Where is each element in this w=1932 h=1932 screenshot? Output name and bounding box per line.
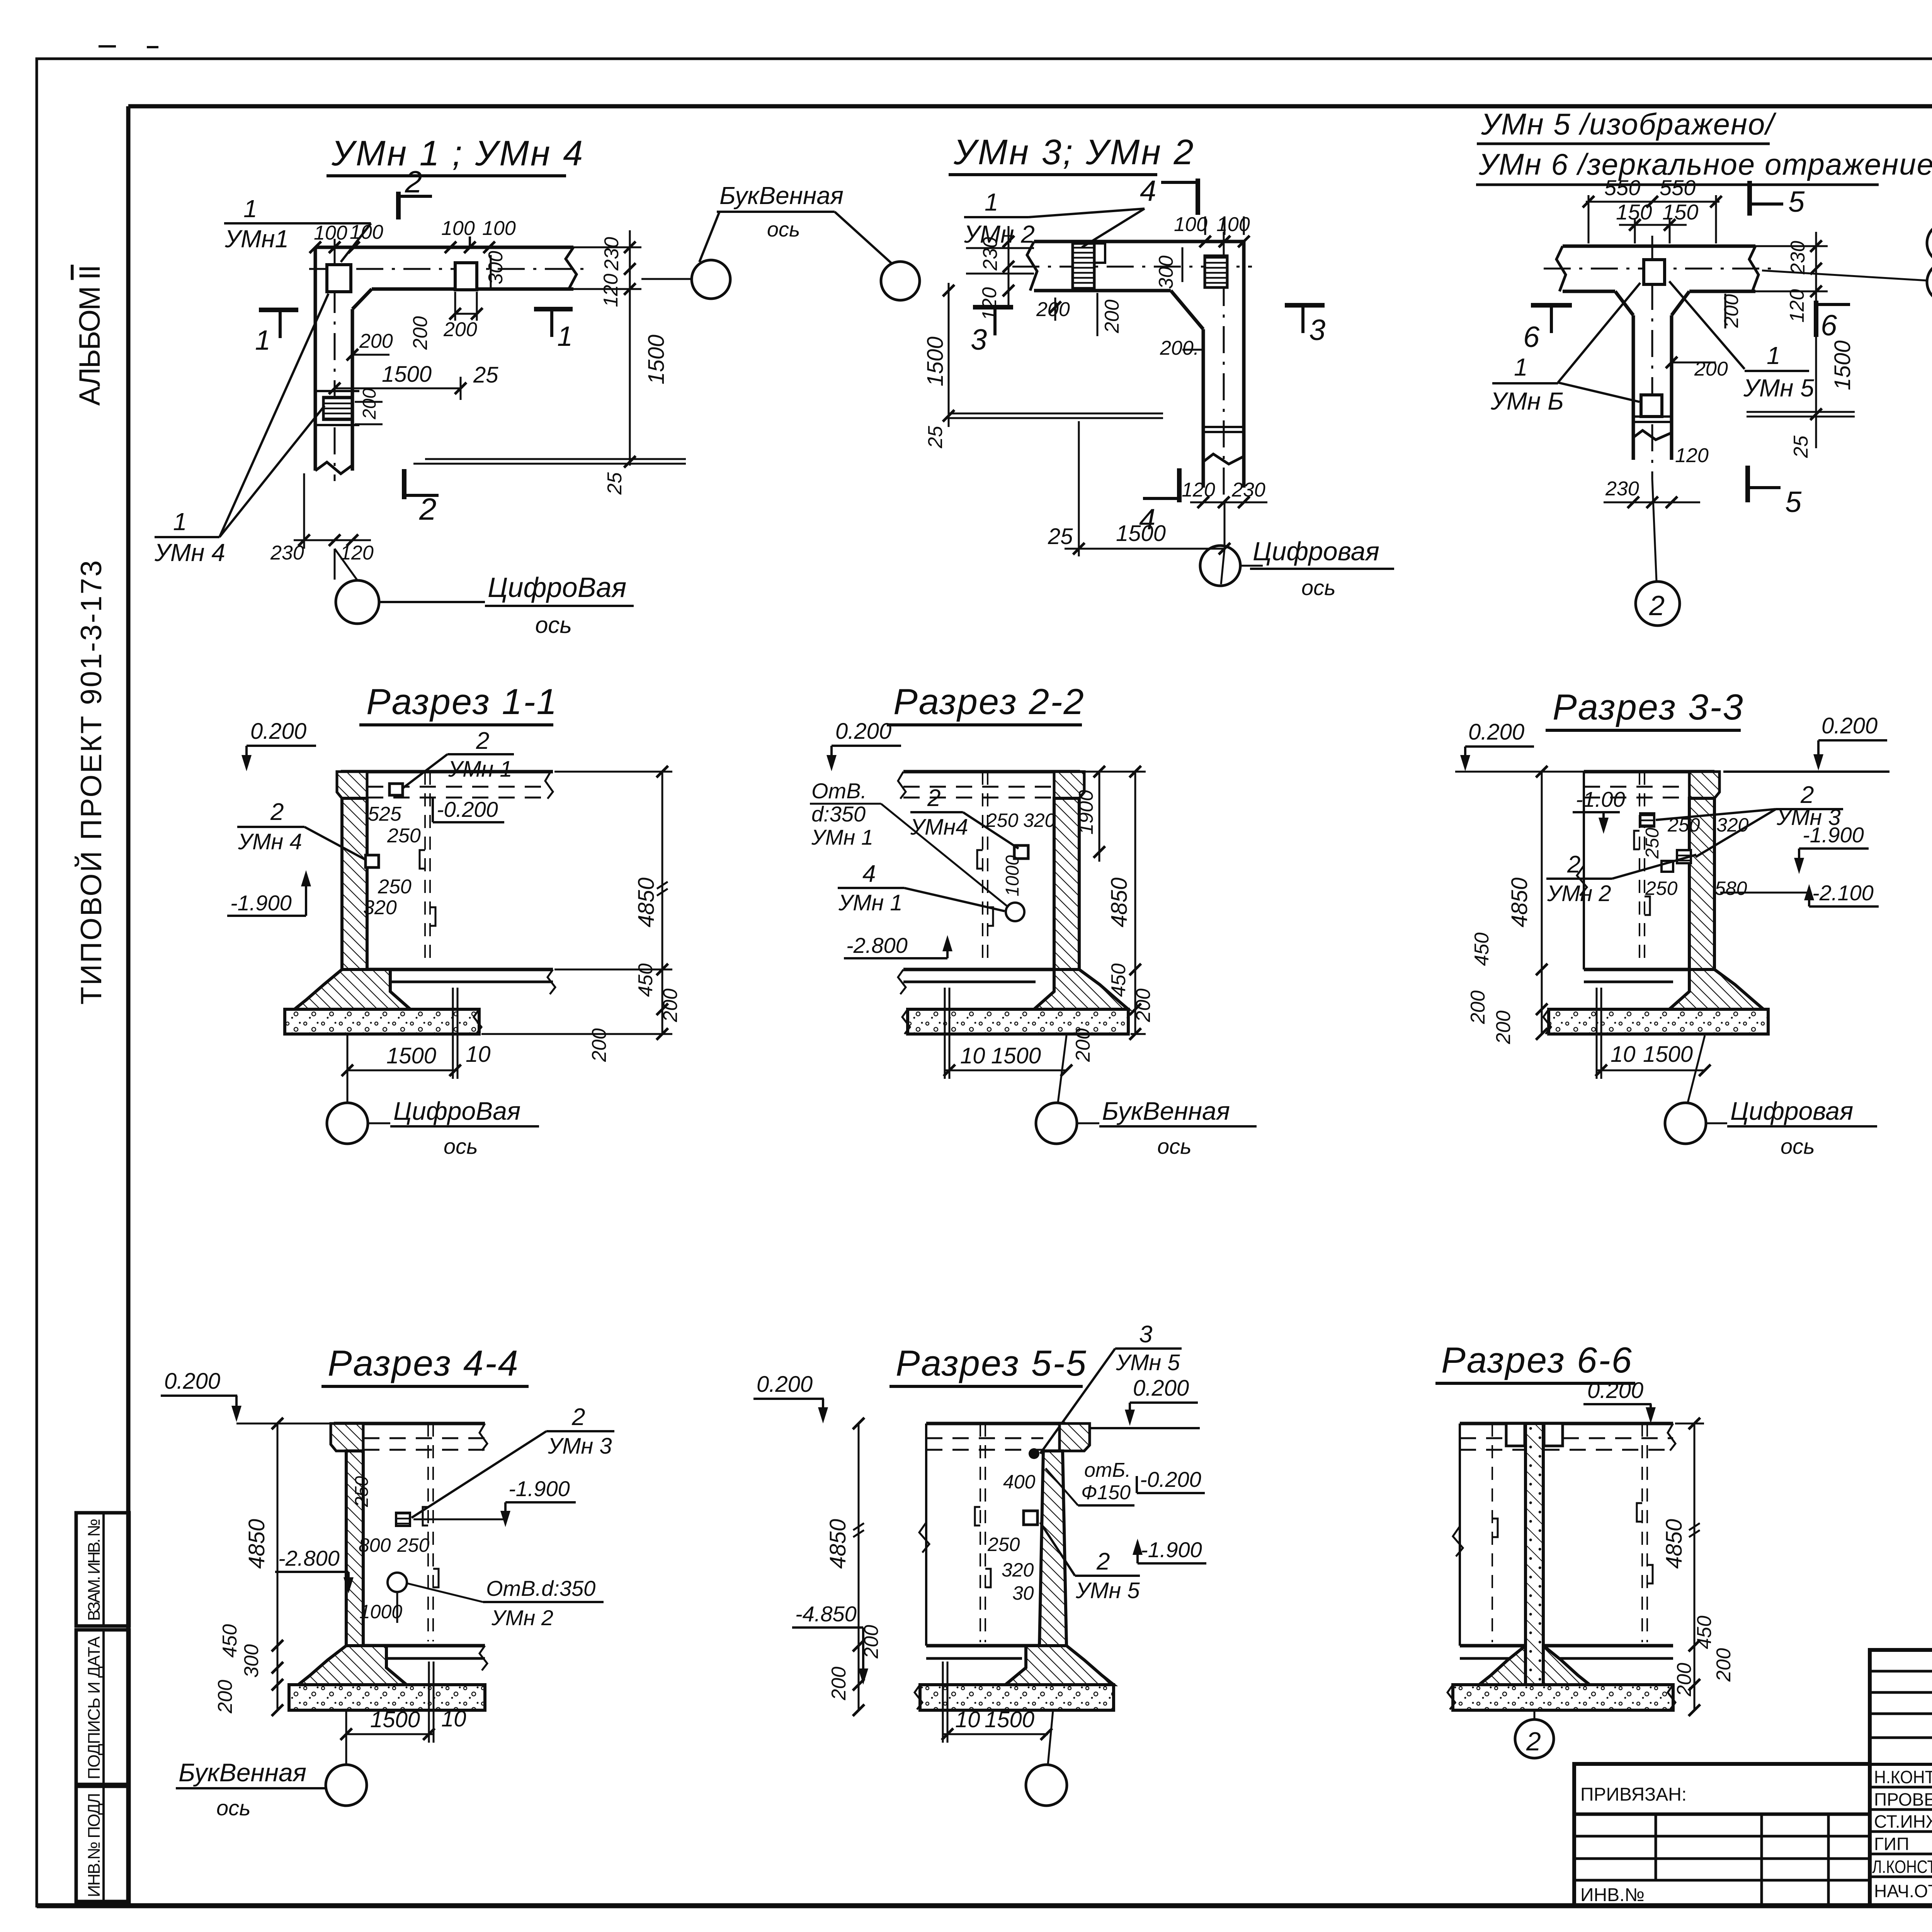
vertical wall edges xyxy=(1202,329,1205,488)
footing xyxy=(1005,1646,1114,1685)
dot + labels xyxy=(1029,1448,1039,1459)
svg-text:230: 230 xyxy=(1787,241,1809,275)
extension thin lines to circle xyxy=(966,247,1034,249)
section mark 2 top xyxy=(396,192,401,219)
svg-text:550: 550 xyxy=(1660,175,1696,200)
svg-text:2: 2 xyxy=(1567,851,1580,878)
svg-text:250: 250 xyxy=(987,1534,1020,1555)
svg-text:1500: 1500 xyxy=(644,335,669,384)
wall bottom break xyxy=(315,462,352,474)
цифровая ось circle xyxy=(336,580,379,624)
svg-text:ОтВ.d:350: ОтВ.d:350 xyxy=(486,1576,595,1600)
svg-text:100: 100 xyxy=(1174,213,1207,236)
dim 200 at chamfer xyxy=(352,354,389,356)
footing xyxy=(1479,1646,1526,1685)
svg-text:1: 1 xyxy=(1767,342,1781,369)
svg-text:250: 250 xyxy=(986,810,1019,831)
breaks xyxy=(480,1423,487,1451)
svg-text:400: 400 xyxy=(1003,1471,1036,1493)
wall cap xyxy=(1689,772,1719,798)
section 6 right xyxy=(1814,301,1818,337)
wall xyxy=(342,798,367,969)
svg-text:1: 1 xyxy=(985,188,998,216)
small scan marks top-left xyxy=(99,45,116,48)
svg-text:УМн 1: УМн 1 xyxy=(838,890,903,915)
svg-text:200: 200 xyxy=(214,1680,236,1714)
svg-text:Разрез 4-4: Разрез 4-4 xyxy=(328,1343,519,1383)
svg-text:25: 25 xyxy=(604,472,626,495)
svg-text:ТИПОВОЙ ПРОЕКТ 901-3-173: ТИПОВОЙ ПРОЕКТ 901-3-173 xyxy=(75,560,108,1005)
svg-text:100: 100 xyxy=(350,221,383,243)
corner chamfer xyxy=(352,289,372,309)
footing xyxy=(1669,969,1764,1009)
svg-text:200: 200 xyxy=(359,330,393,352)
svg-text:120: 120 xyxy=(978,287,1001,321)
svg-text:5: 5 xyxy=(1785,486,1802,519)
svg-text:отБ.: отБ. xyxy=(1084,1459,1131,1481)
wall cap xyxy=(331,1423,363,1451)
svg-text:УМн 1: УМн 1 xyxy=(811,825,873,849)
svg-text:-1.00: -1.00 xyxy=(1576,787,1625,811)
svg-text:200: 200 xyxy=(443,318,477,341)
dim 1500 rotated + 25 xyxy=(1815,291,1817,448)
svg-text:ЦифроВая: ЦифроВая xyxy=(393,1097,520,1125)
svg-text:450: 450 xyxy=(1107,963,1130,997)
svg-text:ось: ось xyxy=(444,1134,478,1158)
svg-text:ГИП: ГИП xyxy=(1874,1834,1909,1854)
svg-text:1: 1 xyxy=(557,321,573,352)
axis circle + label left xyxy=(345,1711,347,1764)
svg-text:3: 3 xyxy=(1309,314,1325,347)
inner frame bottom (thick) xyxy=(37,1903,1932,1908)
reference double line xyxy=(949,413,1163,415)
svg-text:ИНВ.№: ИНВ.№ xyxy=(1580,1885,1645,1905)
joint dashed xyxy=(424,772,426,965)
svg-text:0.200: 0.200 xyxy=(250,719,306,744)
svg-text:2: 2 xyxy=(270,799,284,825)
left stamp boxes xyxy=(76,1513,129,1626)
plate 3 hatched xyxy=(323,397,352,420)
wall xyxy=(346,1451,363,1646)
svg-text:2: 2 xyxy=(1526,1727,1541,1756)
svg-text:ПРИВЯЗАН:: ПРИВЯЗАН: xyxy=(1580,1784,1687,1805)
svg-text:300: 300 xyxy=(1155,255,1177,289)
section mark 1 left xyxy=(259,308,298,312)
svg-text:200: 200 xyxy=(409,316,432,350)
section 3 left xyxy=(973,305,1013,310)
svg-text:2: 2 xyxy=(1649,590,1665,621)
svg-text:550: 550 xyxy=(1604,175,1640,200)
svg-text:450: 450 xyxy=(1693,1616,1716,1649)
top slab xyxy=(903,770,1080,774)
plates + hole xyxy=(396,1513,410,1526)
svg-text:200.: 200. xyxy=(1160,337,1199,359)
dash-dot centerline horizontal xyxy=(309,268,587,270)
svg-text:-0.200: -0.200 xyxy=(1140,1467,1201,1492)
svg-text:d:350: d:350 xyxy=(811,802,866,826)
floor xyxy=(363,1644,485,1648)
water dashed xyxy=(926,1437,1043,1439)
top slab xyxy=(334,1422,485,1425)
svg-text:525: 525 xyxy=(368,803,402,825)
svg-text:УМн Б: УМн Б xyxy=(1490,387,1564,415)
section 6 left xyxy=(1531,303,1572,308)
svg-text:580: 580 xyxy=(1715,878,1747,899)
bottom dims xyxy=(945,1070,1066,1071)
230/120 rotated left xyxy=(1008,226,1010,309)
svg-text:0.200: 0.200 xyxy=(1587,1378,1643,1403)
svg-text:1: 1 xyxy=(243,195,257,223)
4850 left dim xyxy=(1541,772,1543,1034)
floor xyxy=(367,968,553,971)
plates xyxy=(1640,813,1654,827)
plate 2 xyxy=(455,263,477,290)
dim 200 at plate3 xyxy=(355,401,383,403)
4850 left xyxy=(858,1423,860,1710)
wall horizontal top edge xyxy=(315,246,573,249)
center plate xyxy=(1644,260,1665,284)
water dashed xyxy=(363,1437,485,1439)
svg-text:25: 25 xyxy=(1048,524,1073,549)
flange top edge xyxy=(1563,245,1755,248)
section 4 bottom xyxy=(1177,468,1182,502)
joints dashed with keys xyxy=(1641,1423,1643,1642)
svg-text:Л.КОНСТР.: Л.КОНСТР. xyxy=(1872,1857,1932,1877)
lower plate xyxy=(1641,395,1662,417)
top slab xyxy=(1460,1422,1673,1425)
svg-text:-2.100: -2.100 xyxy=(1812,881,1874,905)
svg-text:2: 2 xyxy=(1800,782,1814,808)
svg-text:200: 200 xyxy=(659,988,682,1022)
svg-text:1000: 1000 xyxy=(1002,855,1023,896)
plate 1 hatched xyxy=(1073,243,1094,289)
svg-text:Разрез 2-2: Разрез 2-2 xyxy=(893,681,1085,722)
svg-text:200: 200 xyxy=(1072,1028,1094,1062)
inner frame top xyxy=(128,104,1932,109)
svg-text:1: 1 xyxy=(1514,353,1528,381)
4850 left dims xyxy=(277,1423,279,1710)
floor xyxy=(903,968,1054,971)
centerlines xyxy=(1012,266,1252,268)
svg-text:250: 250 xyxy=(378,876,412,898)
svg-text:Разрез 5-5: Разрез 5-5 xyxy=(896,1343,1087,1383)
svg-text:150: 150 xyxy=(1662,200,1698,224)
dim 200 under plate2 xyxy=(455,313,477,315)
svg-text:1500: 1500 xyxy=(370,1707,420,1732)
dash-dot centerline vertical xyxy=(334,239,336,481)
svg-text:200: 200 xyxy=(1467,990,1489,1024)
svg-text:0.200: 0.200 xyxy=(1133,1376,1189,1401)
plate 2 at corner xyxy=(1205,256,1227,287)
svg-text:450: 450 xyxy=(1471,932,1493,966)
boundaries xyxy=(1459,1423,1461,1646)
centerlines xyxy=(1544,268,1777,270)
breaks xyxy=(1556,246,1566,291)
svg-text:100: 100 xyxy=(441,217,475,240)
1900 / 4850 right dims xyxy=(1099,772,1100,862)
svg-text:200: 200 xyxy=(359,388,380,420)
dim 230 120 bottom xyxy=(294,539,371,541)
svg-text:ВЗАМ. ИНВ. №: ВЗАМ. ИНВ. № xyxy=(85,1519,104,1621)
svg-text:25: 25 xyxy=(924,425,947,449)
central wall xyxy=(1526,1423,1543,1685)
footing xyxy=(1034,969,1128,1009)
svg-text:0.200: 0.200 xyxy=(1468,719,1524,745)
svg-text:ПОДПИСЬ И ДАТА: ПОДПИСЬ И ДАТА xyxy=(85,1636,104,1779)
svg-text:250: 250 xyxy=(352,1476,372,1507)
1500 rotated left xyxy=(948,283,950,427)
svg-text:ось: ось xyxy=(535,612,572,638)
svg-text:БукВенная: БукВенная xyxy=(719,182,844,209)
svg-text:0.200: 0.200 xyxy=(757,1372,813,1397)
svg-text:0.200: 0.200 xyxy=(835,719,891,744)
svg-text:300: 300 xyxy=(240,1644,263,1678)
svg-text:120: 120 xyxy=(1786,289,1808,323)
svg-text:1500: 1500 xyxy=(985,1707,1034,1732)
breaks xyxy=(545,772,553,799)
svg-text:320: 320 xyxy=(363,896,397,919)
svg-text:ось: ось xyxy=(1301,575,1336,600)
svg-text:250: 250 xyxy=(1667,814,1700,836)
svg-text:АЛЬБОМ II: АЛЬБОМ II xyxy=(73,265,106,406)
svg-text:3: 3 xyxy=(971,323,987,356)
wall horizontal bottom edge xyxy=(372,287,573,291)
svg-text:-2.800: -2.800 xyxy=(846,933,908,957)
svg-text:250: 250 xyxy=(1642,828,1663,859)
svg-text:230: 230 xyxy=(270,542,304,564)
svg-text:6: 6 xyxy=(1821,309,1837,342)
inner frame left xyxy=(126,106,131,1906)
top slab xyxy=(341,770,553,774)
svg-text:УМн 5: УМн 5 xyxy=(1075,1578,1140,1603)
4850 right dims xyxy=(1694,1423,1696,1710)
left boundary xyxy=(1583,772,1585,969)
svg-text:4: 4 xyxy=(862,861,876,887)
wall xyxy=(1054,798,1079,969)
svg-text:120: 120 xyxy=(340,542,374,564)
section 3 right xyxy=(1285,303,1325,308)
svg-text:10: 10 xyxy=(466,1042,491,1067)
svg-text:ПРОВЕР.: ПРОВЕР. xyxy=(1874,1789,1932,1810)
breaks xyxy=(898,772,906,799)
svg-text:2: 2 xyxy=(927,785,940,811)
svg-text:Ф150: Ф150 xyxy=(1081,1481,1131,1504)
section mark 2 bottom xyxy=(402,469,406,499)
wall cap right xyxy=(1054,772,1084,798)
wall cap right xyxy=(1060,1423,1090,1451)
svg-text:УМн 5: УМн 5 xyxy=(1116,1350,1180,1375)
plate xyxy=(1024,1511,1037,1525)
svg-text:ось: ось xyxy=(1781,1134,1815,1158)
axis circle xyxy=(1058,1036,1066,1102)
svg-text:5: 5 xyxy=(1788,185,1805,218)
svg-text:ось: ось xyxy=(216,1796,251,1820)
wall right break xyxy=(566,247,577,289)
svg-text:230: 230 xyxy=(600,237,623,271)
svg-text:800: 800 xyxy=(359,1534,391,1556)
svg-text:200: 200 xyxy=(828,1667,850,1701)
svg-text:ось: ось xyxy=(767,218,800,241)
svg-text:320: 320 xyxy=(1716,814,1749,836)
svg-text:1500: 1500 xyxy=(382,362,432,387)
chamfer xyxy=(1171,291,1203,329)
svg-text:100: 100 xyxy=(314,222,347,244)
svg-text:6: 6 xyxy=(1523,321,1540,354)
svg-text:0.200: 0.200 xyxy=(1821,713,1878,738)
wall bottom edge xyxy=(1034,289,1171,293)
svg-text:3: 3 xyxy=(1139,1321,1152,1348)
water dashed xyxy=(1584,786,1689,788)
svg-text:-1.900: -1.900 xyxy=(1803,823,1864,847)
bottom dims xyxy=(347,1070,458,1071)
svg-text:10: 10 xyxy=(1611,1042,1636,1067)
dim 200 xyxy=(1054,298,1056,321)
svg-text:10: 10 xyxy=(441,1706,466,1731)
svg-text:200: 200 xyxy=(1673,1663,1696,1697)
axis circle xyxy=(1688,1036,1705,1102)
svg-text:10: 10 xyxy=(955,1707,980,1732)
svg-text:200: 200 xyxy=(1132,988,1155,1022)
wall top edge xyxy=(1034,240,1244,243)
right dim line xyxy=(662,772,663,1034)
svg-text:100: 100 xyxy=(482,217,516,240)
svg-text:25: 25 xyxy=(473,362,498,388)
svg-text:320: 320 xyxy=(1023,810,1056,831)
flange bottom edges with chamfers xyxy=(1563,290,1615,293)
plate 1 at corner xyxy=(327,265,351,292)
svg-text:4850: 4850 xyxy=(1662,1519,1687,1569)
svg-text:1500: 1500 xyxy=(1830,340,1855,390)
svg-text:СТ.ИНЖ.: СТ.ИНЖ. xyxy=(1874,1811,1932,1832)
svg-text:УМн1: УМн1 xyxy=(224,225,289,253)
svg-text:НАЧ.ОТД.: НАЧ.ОТД. xyxy=(1874,1881,1932,1901)
floor xyxy=(926,1644,1039,1648)
caps both sides xyxy=(1506,1423,1525,1446)
svg-text:450: 450 xyxy=(634,963,657,997)
svg-text:-1.900: -1.900 xyxy=(230,891,292,915)
svg-text:230: 230 xyxy=(979,237,1002,271)
svg-text:300: 300 xyxy=(485,251,507,284)
svg-text:БукВенная: БукВенная xyxy=(1102,1097,1230,1125)
svg-text:2: 2 xyxy=(419,492,437,526)
svg-text:УМн 2: УМн 2 xyxy=(491,1605,553,1630)
svg-text:1000: 1000 xyxy=(359,1601,402,1622)
svg-text:2: 2 xyxy=(405,165,422,199)
section 5 bottom xyxy=(1745,466,1750,502)
svg-text:200: 200 xyxy=(860,1625,883,1659)
svg-text:200: 200 xyxy=(1720,294,1743,328)
svg-text:1: 1 xyxy=(173,508,187,536)
axis circle xyxy=(1048,1711,1053,1764)
joint dashed xyxy=(980,1423,981,1642)
svg-text:УМн 5: УМн 5 xyxy=(1743,374,1814,402)
svg-text:250: 250 xyxy=(387,825,421,847)
svg-text:УМн4: УМн4 xyxy=(910,815,968,840)
svg-text:230: 230 xyxy=(1605,478,1639,500)
svg-text:1500: 1500 xyxy=(991,1043,1041,1068)
footing xyxy=(298,1646,406,1685)
svg-text:-2.800: -2.800 xyxy=(278,1546,340,1570)
reference double line xyxy=(425,458,686,460)
wall xyxy=(1689,798,1714,969)
svg-text:200: 200 xyxy=(1694,358,1728,380)
svg-text:БукВенная: БукВенная xyxy=(179,1758,306,1787)
circles Г Б xyxy=(1927,223,1932,263)
svg-text:Н.КОНТР.: Н.КОНТР. xyxy=(1874,1767,1932,1787)
svg-text:Цифровая: Цифровая xyxy=(1253,537,1379,566)
axis line to circle xyxy=(334,549,336,580)
left boundary xyxy=(925,1423,927,1646)
svg-text:4850: 4850 xyxy=(634,878,659,927)
circle 2 xyxy=(1534,1711,1536,1719)
vertical wall left edge xyxy=(314,247,317,471)
svg-text:4850: 4850 xyxy=(1107,878,1132,927)
joint dashed xyxy=(1639,772,1640,966)
svg-text:ЦифроВая: ЦифроВая xyxy=(488,572,626,603)
footing xyxy=(294,969,410,1009)
svg-text:250: 250 xyxy=(397,1534,430,1556)
wall xyxy=(1039,1451,1066,1646)
joint dashed xyxy=(427,1423,429,1641)
svg-text:УМн 1: УМн 1 xyxy=(448,757,512,782)
svg-text:УМн 4: УМн 4 xyxy=(238,829,302,854)
svg-text:УМн 1 ; УМн 4: УМн 1 ; УМн 4 xyxy=(331,134,584,173)
svg-text:ИНВ.№ ПОДЛ: ИНВ.№ ПОДЛ xyxy=(85,1793,104,1897)
svg-text:1500: 1500 xyxy=(1116,521,1166,546)
svg-text:-4.850: -4.850 xyxy=(795,1602,857,1626)
svg-text:10: 10 xyxy=(960,1043,985,1068)
svg-text:200: 200 xyxy=(1492,1010,1515,1044)
svg-text:200: 200 xyxy=(1101,299,1123,333)
svg-text:Разрез 6-6: Разрез 6-6 xyxy=(1441,1340,1633,1380)
svg-text:1500: 1500 xyxy=(923,337,948,386)
right end dims 230/120 xyxy=(573,247,641,248)
circle 2 bottom xyxy=(1652,479,1656,582)
svg-text:250: 250 xyxy=(1645,878,1678,899)
dims 25 1500 bottom xyxy=(1078,421,1080,556)
цифровая ось xyxy=(1224,502,1226,546)
svg-text:2: 2 xyxy=(476,728,489,754)
plates xyxy=(389,784,403,795)
dim 1500 horizontal xyxy=(335,388,461,389)
section mark 1 right xyxy=(534,307,573,311)
svg-text:1500: 1500 xyxy=(1643,1042,1693,1067)
svg-text:ОтВ.: ОтВ. xyxy=(811,779,867,803)
svg-text:200: 200 xyxy=(1713,1648,1735,1682)
vertical wall right edge xyxy=(351,309,354,471)
svg-text:200: 200 xyxy=(588,1028,611,1062)
joint dashed xyxy=(982,772,983,965)
svg-text:УМн 4: УМн 4 xyxy=(154,539,225,566)
breaks xyxy=(1027,241,1037,291)
bottom dims xyxy=(346,1733,434,1735)
svg-text:30: 30 xyxy=(1012,1582,1034,1604)
svg-text:2: 2 xyxy=(571,1404,585,1430)
svg-text:1: 1 xyxy=(255,325,270,356)
svg-text:УМн 3: УМн 3 xyxy=(548,1434,612,1459)
water dashed xyxy=(903,786,1054,788)
svg-text:-1.900: -1.900 xyxy=(1141,1537,1202,1562)
svg-text:УМн 5 /изображено/: УМн 5 /изображено/ xyxy=(1481,107,1777,141)
section 4 top xyxy=(1196,179,1200,215)
svg-text:Разрез 3-3: Разрез 3-3 xyxy=(1553,687,1744,727)
svg-text:1500: 1500 xyxy=(386,1043,436,1068)
svg-text:ось: ось xyxy=(1157,1134,1192,1158)
svg-text:320: 320 xyxy=(1002,1559,1034,1581)
water dashed xyxy=(367,786,551,788)
water dashed xyxy=(1460,1437,1506,1439)
floor xyxy=(1584,968,1689,971)
